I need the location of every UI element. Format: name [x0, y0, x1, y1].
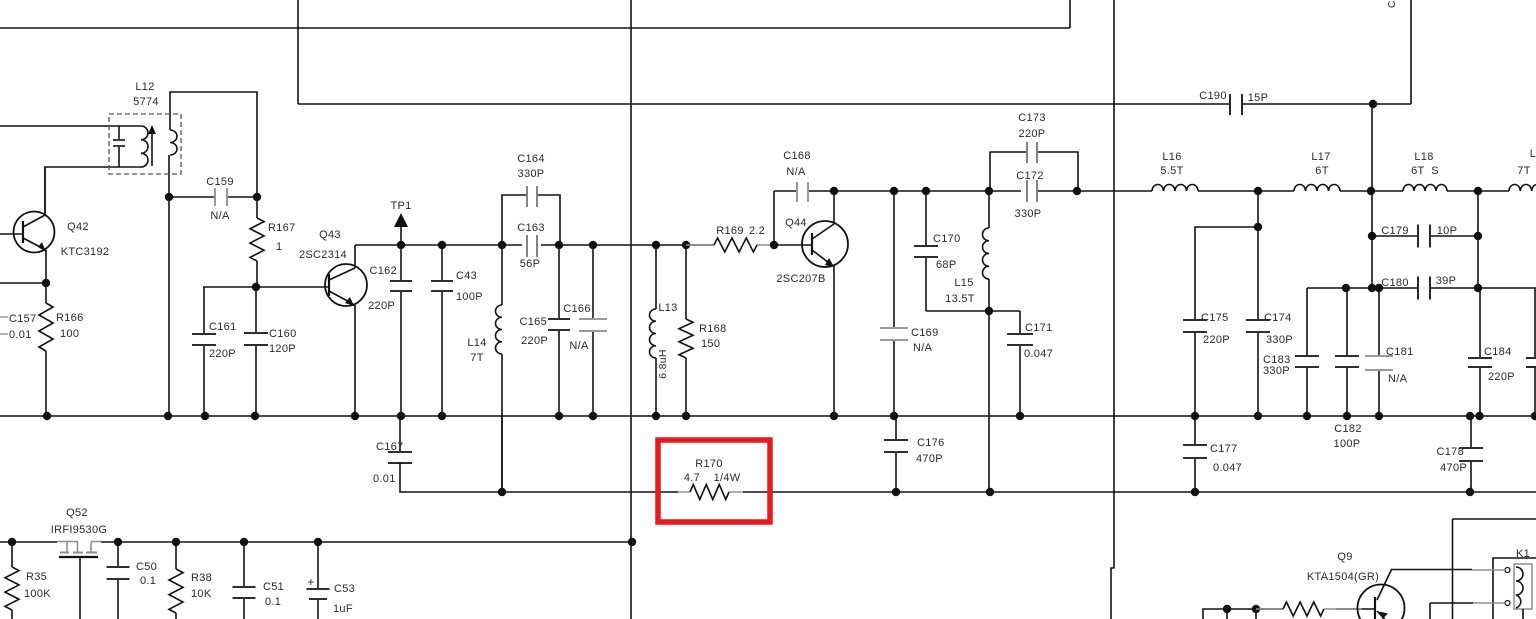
capacitor inside L12: [113, 126, 125, 167]
transistor Q44: [802, 221, 848, 267]
capacitor C176: [884, 416, 908, 492]
label 56P C163: [520, 258, 540, 270]
label 220P C162: [368, 300, 395, 312]
transistor Q43: [325, 264, 367, 306]
svg-text:N/A: N/A: [1388, 373, 1408, 385]
svg-text:Q52: Q52: [66, 507, 88, 519]
capacitor C180: [1307, 277, 1478, 300]
svg-text:C163: C163: [517, 222, 545, 234]
bottom bus y416: [0, 415, 1536, 417]
label 330P C164: [518, 168, 545, 180]
svg-text:C157: C157: [9, 313, 37, 325]
label C159: [206, 176, 234, 188]
label 330P C172: [1015, 208, 1042, 220]
capacitor C174: [1246, 191, 1270, 416]
node C180 left a: [1368, 284, 1376, 292]
node C182 bottom: [1343, 412, 1351, 420]
relay K1 box: [1493, 558, 1536, 619]
svg-text:C168: C168: [783, 150, 811, 162]
label C157: [9, 313, 37, 325]
node R166 bottom: [43, 412, 51, 420]
svg-text:Q43: Q43: [319, 229, 341, 241]
svg-text:220P: 220P: [368, 300, 395, 312]
wire C157 stub: [0, 282, 46, 284]
label C175: [1201, 312, 1229, 324]
svg-text:1: 1: [276, 241, 282, 253]
capacitor C160: [244, 287, 268, 416]
resistor R168: [679, 245, 693, 416]
node R35 top: [8, 538, 16, 546]
svg-text:C50: C50: [136, 561, 157, 573]
svg-text:220P: 220P: [1019, 128, 1046, 140]
inductor L16: [1152, 185, 1198, 191]
svg-text:C182: C182: [1334, 423, 1362, 435]
relay contact lower: [1430, 601, 1510, 619]
svg-text:330P: 330P: [1266, 334, 1293, 346]
capacitor C178: [1459, 416, 1483, 492]
svg-text:68P: 68P: [936, 259, 956, 271]
node label C rotated: [1387, 0, 1398, 8]
relay coil K1: [1514, 564, 1532, 619]
inductor L15: [983, 191, 989, 311]
svg-text:330P: 330P: [1263, 365, 1290, 377]
label 1uF C53: [333, 603, 353, 615]
label C173: [1018, 112, 1046, 124]
label C190: [1199, 90, 1227, 102]
label 220P C165: [521, 335, 548, 347]
svg-text:IRFI9530G: IRFI9530G: [51, 524, 108, 536]
label C163: [517, 222, 545, 234]
node L16 right: [1254, 187, 1262, 195]
svg-text:56P: 56P: [520, 258, 540, 270]
label 0.1 C51: [265, 596, 281, 608]
node L13 top: [652, 241, 660, 249]
node R168 top: [682, 241, 690, 249]
svg-text:KTA1504(GR): KTA1504(GR): [1307, 571, 1379, 583]
svg-text:10P: 10P: [1437, 225, 1457, 237]
svg-text:5774: 5774: [133, 96, 159, 108]
relay contact upper: [1472, 568, 1510, 573]
svg-text:C172: C172: [1016, 170, 1044, 182]
label Q43: [319, 229, 341, 241]
node TP1 junction: [397, 241, 405, 249]
transformer L12 dashed box: [109, 114, 181, 174]
capacitor C171: [989, 311, 1033, 416]
svg-text:1uF: 1uF: [333, 603, 353, 615]
collector rail y192 cont: [1038, 190, 1152, 192]
svg-text:0.01: 0.01: [9, 329, 32, 341]
svg-text:13.5T: 13.5T: [945, 293, 975, 305]
L12 core arrow: [148, 125, 156, 166]
Q43 collector: [329, 245, 355, 280]
svg-text:470P: 470P: [916, 453, 943, 465]
svg-text:C5: C5: [1387, 0, 1398, 8]
wire secondary lower drop: [168, 155, 170, 416]
capacitor C190: [1230, 94, 1242, 115]
capacitor C169: [880, 191, 908, 416]
label IRFI9530G: [51, 524, 108, 536]
label 470P C178: [1440, 462, 1467, 474]
label C177: [1210, 443, 1238, 455]
node R168 bottom: [682, 412, 690, 420]
node C170 top: [922, 187, 930, 195]
svg-text:100P: 100P: [456, 291, 483, 303]
wire Q9 base rail: [1203, 609, 1375, 619]
svg-text:4.7: 4.7: [684, 472, 700, 484]
node L13 bottom: [652, 412, 660, 420]
label 39P C180: [1436, 275, 1456, 287]
node C179 left: [1368, 232, 1376, 240]
label Q42: [67, 221, 89, 233]
capacitor C181: [1365, 288, 1393, 416]
svg-text:C176: C176: [917, 437, 945, 449]
svg-text:C165: C165: [520, 316, 548, 328]
label N/A C166: [569, 340, 589, 352]
label 0.047 C177: [1213, 462, 1242, 474]
node C166 top: [589, 241, 597, 249]
label C160: [269, 328, 297, 340]
node C43 bottom: [438, 412, 446, 420]
svg-text:330P: 330P: [518, 168, 545, 180]
Q9 collector: [1377, 570, 1472, 601]
svg-text:N/A: N/A: [913, 342, 933, 354]
test point TP1: [394, 213, 408, 245]
wire riser x1411: [1410, 0, 1412, 104]
node C165 bottom: [555, 412, 563, 420]
node L15 top: [985, 187, 993, 195]
inductor chain segment 3: [1447, 190, 1509, 192]
svg-text:L12: L12: [135, 81, 154, 93]
label C171: [1025, 322, 1053, 334]
label C50: [136, 561, 157, 573]
label L13: [658, 302, 677, 314]
collector rail y192 left: [774, 190, 796, 192]
node C177 bottom: [1191, 488, 1199, 496]
label 2SC2314: [299, 249, 347, 261]
node C53 top: [314, 538, 322, 546]
label L14: [467, 337, 486, 349]
svg-text:C184: C184: [1484, 346, 1512, 358]
wire long center vertical: [630, 0, 632, 619]
label L16: [1162, 151, 1181, 163]
svg-text:6.8uH: 6.8uH: [657, 349, 669, 379]
inductor L18: [1403, 185, 1447, 191]
main signal rail y245: [355, 244, 522, 246]
label 7T L19: [1517, 165, 1530, 177]
label KTC3192: [61, 246, 110, 258]
inductor chain segment 2: [1340, 190, 1403, 192]
node C159 right: [253, 193, 261, 201]
svg-text:7T: 7T: [1517, 165, 1530, 177]
node Q43 emitter bus: [351, 412, 359, 420]
svg-text:2.2: 2.2: [749, 225, 765, 237]
label 0.01 C167: [373, 473, 396, 485]
svg-text:C170: C170: [933, 233, 961, 245]
svg-text:L15: L15: [954, 277, 973, 289]
svg-text:R35: R35: [26, 571, 47, 583]
svg-text:C160: C160: [269, 328, 297, 340]
Q52 rail y542 left: [0, 541, 57, 543]
node C169 top: [890, 187, 898, 195]
node C181 bottom: [1375, 412, 1383, 420]
label C167: [376, 441, 404, 453]
node rail junction x632: [628, 538, 636, 546]
label R38: [191, 572, 212, 584]
svg-text:6T S: 6T S: [1411, 165, 1439, 177]
capacitor C177: [1183, 416, 1207, 492]
label 100: [60, 328, 79, 340]
Q43 emitter: [329, 291, 355, 416]
label Q9: [1337, 551, 1352, 563]
label 100P C43: [456, 291, 483, 303]
transistor Q42: [14, 212, 55, 253]
svg-text:220P: 220P: [521, 335, 548, 347]
capacitor C179: [1372, 225, 1478, 248]
capacitor C182: [1335, 288, 1359, 416]
node L15 drop bottom: [986, 488, 994, 496]
node L14 bottom: [498, 488, 506, 496]
node edge cap bottom: [1531, 412, 1536, 420]
Q9 emitter: [1377, 611, 1394, 619]
node C184 bottom b: [1475, 412, 1483, 420]
label L12: [135, 81, 154, 93]
svg-text:15P: 15P: [1248, 92, 1268, 104]
svg-text:2SC207B: 2SC207B: [776, 273, 825, 285]
label C43: [456, 270, 477, 282]
svg-text:C166: C166: [563, 303, 591, 315]
svg-text:N/A: N/A: [569, 340, 589, 352]
label 6T S L18: [1411, 165, 1439, 177]
svg-text:C43: C43: [456, 270, 477, 282]
svg-text:0.01: 0.01: [373, 473, 396, 485]
svg-text:R168: R168: [699, 323, 727, 335]
svg-text:K1: K1: [1516, 548, 1530, 560]
node L15 bottom: [985, 307, 993, 315]
svg-text:KTC3192: KTC3192: [61, 246, 110, 258]
wire riser right of top rail: [1069, 0, 1071, 28]
capacitor C183: [1295, 288, 1319, 416]
Q52 rail y542 right: [101, 541, 632, 543]
mosfet Q52: [57, 542, 101, 619]
node C180 right: [1474, 284, 1482, 292]
svg-text:39P: 39P: [1436, 275, 1456, 287]
label R169: [716, 225, 744, 237]
node C176 bottom: [892, 488, 900, 496]
svg-text:C167: C167: [376, 441, 404, 453]
label C168: [783, 150, 811, 162]
node C178 bottom: [1466, 488, 1474, 496]
node C179 right: [1474, 232, 1482, 240]
node C169 bottom: [890, 412, 898, 420]
svg-text:Q42: Q42: [67, 221, 89, 233]
svg-text:N/A: N/A: [210, 210, 230, 222]
svg-text:C53: C53: [334, 583, 355, 595]
label C164: [517, 153, 545, 165]
node C164 left: [498, 241, 506, 249]
capacitor C175: [1183, 227, 1258, 416]
svg-text:R169: R169: [716, 225, 744, 237]
label L17: [1311, 151, 1330, 163]
inductor L13: [650, 245, 657, 416]
capacitor C163: [527, 235, 537, 257]
label 0.01 C157: [9, 329, 32, 341]
label C178: [1437, 446, 1465, 458]
node L18 right: [1474, 187, 1482, 195]
svg-text:Q44: Q44: [785, 217, 807, 229]
label 15P C190: [1248, 92, 1268, 104]
capacitor C164 loop: [502, 186, 560, 245]
svg-text:R167: R167: [268, 222, 296, 234]
node C162 bottom: [397, 412, 405, 420]
node C50 top: [114, 538, 122, 546]
resistor R167: [250, 197, 264, 286]
node emitter junction Q42: [42, 279, 50, 287]
svg-text:C179: C179: [1381, 225, 1409, 237]
label N/A C181: [1388, 373, 1408, 385]
wire Q43 base rail: [203, 286, 330, 288]
label L15: [954, 277, 973, 289]
label 100P C182: [1334, 438, 1361, 450]
svg-text:Q9: Q9: [1337, 551, 1352, 563]
label 220P C175: [1203, 334, 1230, 346]
label 4.7: [684, 472, 700, 484]
node C171 bottom: [1016, 412, 1024, 420]
label C179: [1381, 225, 1409, 237]
label C170: [933, 233, 961, 245]
svg-text:0.1: 0.1: [265, 596, 281, 608]
wire C159 junction node A: [165, 193, 173, 201]
wire relay vertical: [1452, 519, 1454, 619]
label 5.5T L16: [1160, 165, 1183, 177]
label C51: [263, 581, 284, 593]
collector rail y192: [809, 190, 1021, 192]
label C176: [917, 437, 945, 449]
svg-text:220P: 220P: [1488, 371, 1515, 383]
svg-text:R170: R170: [695, 458, 723, 470]
label R170: [695, 458, 723, 470]
node L17 right: [1367, 187, 1375, 195]
label 120P C160: [269, 343, 296, 355]
label Q52: [66, 507, 88, 519]
node C43 top: [438, 241, 446, 249]
label 0.1 C50: [140, 575, 156, 587]
capacitor C173 loop: [990, 142, 1078, 191]
inductor L14: [496, 245, 502, 492]
node R169 right: [770, 241, 813, 249]
label KTA1504(GR): [1307, 571, 1379, 583]
svg-text:C181: C181: [1386, 346, 1414, 358]
label 1/4W: [714, 472, 741, 484]
label C172: [1016, 170, 1044, 182]
wire L12 feed upper: [0, 125, 141, 127]
svg-text:C177: C177: [1210, 443, 1238, 455]
svg-text:330P: 330P: [1015, 208, 1042, 220]
svg-text:C161: C161: [209, 321, 237, 333]
svg-text:2SC2314: 2SC2314: [299, 249, 347, 261]
capacitor C167: [388, 416, 412, 464]
transistor Q9: [1358, 585, 1405, 619]
svg-text:+: +: [307, 575, 314, 589]
node C180 left b: [1375, 284, 1383, 292]
highlight red box: [658, 440, 770, 522]
resistor R35: [5, 542, 19, 619]
capacitor C166: [579, 245, 607, 416]
node C175 bottom: [1191, 412, 1199, 420]
svg-text:120P: 120P: [269, 343, 296, 355]
svg-text:150: 150: [701, 338, 720, 350]
main signal rail y245 right part: [541, 244, 714, 246]
svg-text:C174: C174: [1264, 312, 1292, 324]
label 10K: [191, 588, 212, 600]
capacitor C50: [107, 542, 130, 619]
svg-text:N/A: N/A: [786, 166, 806, 178]
svg-text:L17: L17: [1311, 151, 1330, 163]
node C183 bottom: [1303, 412, 1311, 420]
label 6T L17: [1315, 165, 1328, 177]
wire relay top rail: [1453, 518, 1536, 520]
label C180: [1381, 277, 1409, 289]
node C173 right: [1073, 187, 1081, 195]
R170 rail y492 right: [743, 491, 1536, 493]
svg-text:C190: C190: [1199, 90, 1227, 102]
node C166 bottom: [589, 412, 597, 420]
svg-text:C169: C169: [911, 327, 939, 339]
label C53: [334, 583, 355, 595]
inductor chain segment: [1198, 190, 1294, 192]
capacitor C162: [390, 245, 412, 416]
capacitor C172: [1027, 180, 1037, 202]
label 150 R168: [701, 338, 720, 350]
label 10P C179: [1437, 225, 1457, 237]
inductor L19 partial: [1509, 184, 1536, 191]
capacitor C165: [548, 245, 570, 416]
svg-text:R38: R38: [191, 572, 212, 584]
svg-text:TP1: TP1: [390, 200, 411, 212]
capacitor C161: [192, 287, 216, 416]
svg-text:10K: 10K: [191, 588, 212, 600]
svg-text:5.5T: 5.5T: [1160, 165, 1183, 177]
capacitor C43: [431, 245, 453, 416]
label 100K: [24, 588, 51, 600]
label TP1: [390, 200, 411, 212]
label 6.8uH: [657, 349, 669, 379]
node C184 bottom a: [1466, 412, 1474, 420]
label N/A C168: [786, 166, 806, 178]
label 13.5T: [945, 293, 975, 305]
svg-text:L13: L13: [658, 302, 677, 314]
wire L15 drop to R170 rail: [988, 311, 990, 492]
Q44 collector: [812, 191, 834, 239]
label 68P C170: [936, 259, 956, 271]
svg-text:C51: C51: [263, 581, 284, 593]
node C165 top: [555, 241, 563, 249]
svg-text:1/4W: 1/4W: [714, 472, 741, 484]
wire top-left riser: [297, 0, 299, 104]
svg-text:100K: 100K: [24, 588, 51, 600]
svg-text:L18: L18: [1414, 151, 1433, 163]
label 0.047 C171: [1024, 348, 1053, 360]
label C181: [1386, 346, 1414, 358]
svg-text:R166: R166: [56, 312, 84, 324]
label 330P C174: [1266, 334, 1293, 346]
wire C190 drop: [1371, 104, 1373, 288]
label C161: [209, 321, 237, 333]
label L18: [1414, 151, 1433, 163]
label C169: [911, 327, 939, 339]
wire Q42 base stub: [0, 233, 23, 235]
resistor R169: [686, 238, 774, 252]
node base rail b: [1252, 605, 1260, 619]
